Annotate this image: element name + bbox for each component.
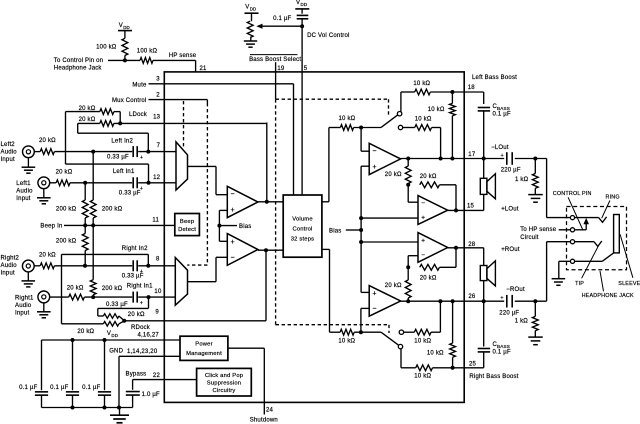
svg-text:CONTROL PIN: CONTROL PIN xyxy=(553,191,592,197)
svg-text:Bias: Bias xyxy=(329,228,341,234)
svg-text:+: + xyxy=(421,237,425,244)
svg-text:20 kΩ: 20 kΩ xyxy=(420,174,437,180)
svg-text:Bias: Bias xyxy=(239,224,251,230)
svg-text:10 kΩ: 10 kΩ xyxy=(415,116,432,122)
svg-text:7: 7 xyxy=(157,143,161,149)
svg-text:20 kΩ: 20 kΩ xyxy=(385,283,402,289)
svg-text:SLEEVE: SLEEVE xyxy=(618,281,640,287)
svg-text:Click and Pop: Click and Pop xyxy=(205,373,243,379)
svg-text:15: 15 xyxy=(467,204,475,210)
svg-text:0.1 µF: 0.1 µF xyxy=(19,385,37,391)
svg-text:Input: Input xyxy=(15,311,29,317)
svg-text:+LOut: +LOut xyxy=(501,207,519,213)
svg-text:20 kΩ: 20 kΩ xyxy=(67,286,84,292)
svg-text:1 kΩ: 1 kΩ xyxy=(515,177,529,183)
svg-text:+ROut: +ROut xyxy=(501,247,520,253)
svg-text:32 steps: 32 steps xyxy=(291,237,315,243)
svg-text:0.33 µF: 0.33 µF xyxy=(122,273,144,279)
svg-text:100 kΩ: 100 kΩ xyxy=(137,49,158,55)
svg-text:20 kΩ: 20 kΩ xyxy=(39,253,56,259)
svg-text:RDock: RDock xyxy=(131,325,151,331)
svg-text:0.33 µF: 0.33 µF xyxy=(119,190,141,196)
svg-text:200 kΩ: 200 kΩ xyxy=(56,239,77,245)
svg-text:8: 8 xyxy=(156,256,160,262)
svg-text:Beep: Beep xyxy=(180,219,194,225)
svg-text:19: 19 xyxy=(277,66,285,72)
svg-text:0.1 µF: 0.1 µF xyxy=(493,350,511,356)
svg-text:1.0 µF: 1.0 µF xyxy=(142,392,160,398)
svg-text:20 kΩ: 20 kΩ xyxy=(420,276,437,282)
svg-text:22: 22 xyxy=(153,373,161,379)
svg-text:−ROut: −ROut xyxy=(506,287,525,293)
svg-text:BASS: BASS xyxy=(497,106,510,111)
svg-text:−: − xyxy=(372,148,376,155)
svg-text:RING: RING xyxy=(606,194,620,200)
svg-text:25: 25 xyxy=(469,362,477,368)
svg-text:Left In2: Left In2 xyxy=(111,138,133,144)
svg-text:HEADPHONE JACK: HEADPHONE JACK xyxy=(582,293,634,299)
svg-text:10: 10 xyxy=(154,289,162,295)
svg-text:10 kΩ: 10 kΩ xyxy=(427,351,444,357)
svg-text:To HP sense: To HP sense xyxy=(520,227,557,233)
svg-text:0.1 µF: 0.1 µF xyxy=(273,16,291,22)
svg-text:Input: Input xyxy=(1,271,15,277)
svg-text:9: 9 xyxy=(155,310,159,316)
svg-text:0.1 µF: 0.1 µF xyxy=(82,385,100,391)
svg-text:+: + xyxy=(140,155,143,161)
svg-text:0.33 µF: 0.33 µF xyxy=(107,155,129,161)
svg-text:−: − xyxy=(372,306,376,313)
svg-text:Mux Control: Mux Control xyxy=(112,98,147,104)
svg-text:Left In1: Left In1 xyxy=(113,169,135,175)
svg-text:+: + xyxy=(231,239,235,246)
svg-text:Audio: Audio xyxy=(16,189,33,195)
svg-text:Circuitry: Circuitry xyxy=(212,388,235,394)
svg-text:Audio: Audio xyxy=(15,303,32,309)
svg-text:10 kΩ: 10 kΩ xyxy=(413,81,430,87)
svg-text:Headphone Jack: Headphone Jack xyxy=(54,65,103,71)
svg-text:HP sense: HP sense xyxy=(169,53,197,59)
svg-text:−: − xyxy=(231,191,235,198)
svg-text:3: 3 xyxy=(156,77,160,83)
svg-text:0.33 µF: 0.33 µF xyxy=(106,302,128,308)
svg-text:Circuit: Circuit xyxy=(520,235,539,241)
svg-text:Left Bass Boost: Left Bass Boost xyxy=(472,75,517,81)
svg-text:20 kΩ: 20 kΩ xyxy=(77,329,94,335)
svg-text:DD: DD xyxy=(301,2,308,7)
svg-text:Input: Input xyxy=(16,196,30,202)
svg-text:+: + xyxy=(421,215,425,222)
svg-text:TIP: TIP xyxy=(575,281,584,287)
svg-text:26: 26 xyxy=(468,294,476,300)
svg-text:12: 12 xyxy=(153,175,161,181)
svg-text:Left1: Left1 xyxy=(16,181,31,187)
svg-text:200 kΩ: 200 kΩ xyxy=(102,207,123,213)
svg-text:1 kΩ: 1 kΩ xyxy=(515,318,529,324)
svg-text:Shutdown: Shutdown xyxy=(250,417,278,423)
svg-text:+: + xyxy=(140,301,143,307)
svg-text:To Control Pin on: To Control Pin on xyxy=(54,58,103,64)
svg-text:−: − xyxy=(231,254,235,261)
svg-text:13: 13 xyxy=(153,115,161,121)
svg-text:DC Vol Control: DC Vol Control xyxy=(307,33,349,39)
svg-text:Right In1: Right In1 xyxy=(127,284,153,290)
svg-text:+: + xyxy=(501,153,504,159)
svg-text:+: + xyxy=(231,207,235,214)
svg-text:1,14,23,20: 1,14,23,20 xyxy=(127,349,158,355)
svg-text:Audio: Audio xyxy=(1,263,18,269)
svg-text:Bypass: Bypass xyxy=(126,371,147,377)
svg-text:20 kΩ: 20 kΩ xyxy=(128,312,145,318)
svg-text:18: 18 xyxy=(468,85,476,91)
svg-text:BASS: BASS xyxy=(497,344,510,349)
svg-text:Control: Control xyxy=(292,227,312,233)
svg-text:Input: Input xyxy=(1,157,15,163)
svg-text:Volume: Volume xyxy=(292,216,313,222)
svg-text:20 kΩ: 20 kΩ xyxy=(56,170,73,176)
svg-text:Left2: Left2 xyxy=(1,142,16,148)
svg-text:DD: DD xyxy=(123,25,130,30)
svg-text:Audio: Audio xyxy=(1,149,18,155)
svg-text:−: − xyxy=(421,200,425,207)
svg-text:−LOut: −LOut xyxy=(491,145,509,151)
svg-text:5: 5 xyxy=(304,66,308,72)
svg-text:20 kΩ: 20 kΩ xyxy=(79,117,96,123)
svg-text:+: + xyxy=(500,296,503,302)
svg-text:100 kΩ: 100 kΩ xyxy=(96,44,117,50)
svg-text:Right In2: Right In2 xyxy=(122,246,148,252)
svg-text:200 kΩ: 200 kΩ xyxy=(56,206,77,212)
svg-text:20 kΩ: 20 kΩ xyxy=(385,172,402,178)
svg-text:DD: DD xyxy=(111,333,118,338)
svg-text:0.1 µF: 0.1 µF xyxy=(493,111,511,117)
svg-text:DD: DD xyxy=(250,6,257,11)
svg-text:Right2: Right2 xyxy=(1,256,20,262)
svg-text:220 µF: 220 µF xyxy=(499,311,519,317)
svg-text:4,16,27: 4,16,27 xyxy=(138,333,160,339)
svg-text:Right1: Right1 xyxy=(15,296,34,302)
svg-text:220 µF: 220 µF xyxy=(501,168,521,174)
svg-text:20 kΩ: 20 kΩ xyxy=(39,138,56,144)
svg-text:Mute: Mute xyxy=(132,82,147,88)
svg-text:+: + xyxy=(372,291,376,298)
svg-text:Right Bass Boost: Right Bass Boost xyxy=(469,374,518,380)
svg-text:Beep In: Beep In xyxy=(40,224,62,230)
svg-text:0.1 µF: 0.1 µF xyxy=(50,385,68,391)
svg-text:−: − xyxy=(421,252,425,259)
svg-text:10 kΩ: 10 kΩ xyxy=(414,339,431,345)
svg-text:10 kΩ: 10 kΩ xyxy=(428,107,445,113)
svg-text:Bass Boost Select: Bass Boost Select xyxy=(249,57,301,63)
svg-text:Management: Management xyxy=(186,351,222,357)
svg-text:Power: Power xyxy=(195,342,212,348)
svg-text:LDock: LDock xyxy=(129,112,148,118)
svg-text:2: 2 xyxy=(156,92,160,98)
svg-text:Suppression: Suppression xyxy=(207,380,241,386)
svg-text:24: 24 xyxy=(266,408,274,414)
svg-text:10 kΩ: 10 kΩ xyxy=(414,374,431,380)
svg-text:Detect: Detect xyxy=(178,227,196,233)
svg-text:21: 21 xyxy=(200,66,208,72)
svg-text:11: 11 xyxy=(152,218,159,224)
svg-text:+: + xyxy=(372,164,376,171)
svg-text:10 kΩ: 10 kΩ xyxy=(339,116,356,122)
svg-text:17: 17 xyxy=(468,152,476,158)
svg-text:10 kΩ: 10 kΩ xyxy=(338,339,355,345)
svg-text:GND: GND xyxy=(109,349,123,355)
svg-text:200 kΩ: 200 kΩ xyxy=(102,286,123,292)
